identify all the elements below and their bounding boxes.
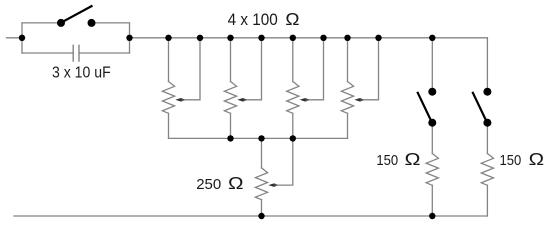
junction 250-ohm pot top [258,135,264,141]
junction node left input [19,35,25,41]
junction pot2 top [227,35,233,41]
wire pot2 wiper lead [243,38,262,100]
wire 250-ohm pot top lead [261,138,263,168]
wire switch branch B middle lead [486,123,488,154]
wire pot4 wiper lead [360,38,379,100]
wire left input stub [7,37,23,39]
wire bottom bus [14,215,487,217]
svg-text:3 x 10 uF: 3 x 10 uF [52,64,111,82]
svg-text:150: 150 [376,151,398,168]
wire pot3 wiper lead [305,38,323,100]
switch S2 bottom contact [428,119,436,127]
capacitor C (3 x 10 uF) plates [73,45,79,61]
junction pot3 wiper top [320,35,326,41]
resistor R6 (150 ohm) zigzag [426,154,438,186]
svg-text:150: 150 [500,151,522,168]
junction pot4 wiper top [375,35,381,41]
wire parallel-block right vertical [129,23,131,53]
switch S2 lever [417,92,430,120]
potentiometer R3 (100 ohm) zigzag [287,82,299,114]
wire top bus [130,37,488,39]
switch S1 left contact [57,19,65,27]
pot1 wiper arrowhead [175,98,181,102]
250-ohm pot wiper arrowhead [268,183,274,187]
svg-text:Ω: Ω [285,9,299,29]
potentiometer R1 (100 ohm) zigzag [162,82,174,114]
wire switch branch A bottom lead [431,185,433,216]
switch S3 bottom contact [483,119,491,127]
wire pots bottom bus [169,137,348,139]
svg-text:4 x 100: 4 x 100 [228,10,278,29]
svg-text:Ω: Ω [228,173,244,193]
junction 250-ohm pot bottom [258,213,264,219]
svg-text:Ω: Ω [405,149,421,169]
switch S1 lever [61,6,93,23]
wire pot3 resistor top lead [292,38,294,82]
svg-text:Ω: Ω [529,149,544,169]
wire pot4 resistor bottom lead [347,113,349,138]
potentiometer R5 (250 ohm) zigzag [255,168,267,200]
wire pot4 resistor top lead [347,38,349,82]
wire switch branch A middle lead [431,123,433,154]
wire pot2 resistor top lead [230,38,232,82]
wire pot1 resistor bottom lead [168,113,170,138]
wire 250-ohm pot bottom lead [261,200,263,216]
pot3 wiper arrowhead [300,98,306,102]
wire 250-ohm pot wiper lead [274,138,293,185]
wire parallel-block top branch right segment [92,22,130,24]
potentiometer R4 (100 ohm) zigzag [341,82,353,114]
wire pot1 wiper lead [181,38,200,100]
wire pot1 resistor top lead [168,38,170,82]
wire parallel-block top branch left segment [22,22,61,24]
svg-text:250: 250 [196,176,221,193]
wire pot2 resistor bottom lead [230,113,232,138]
junction pot1 top [165,35,171,41]
switch S1 right contact [88,19,96,27]
wire parallel-block bottom branch right segment [79,52,130,54]
wire switch branch B top lead [486,38,488,92]
junction pot4 top [344,35,350,41]
junction branch A top [429,35,435,41]
wire parallel-block bottom branch left segment [22,52,73,54]
switch S2 top contact [428,88,436,96]
switch S3 lever [472,92,485,120]
junction pot3 top [290,35,296,41]
wire pot3 resistor bottom lead [292,113,294,138]
junction pot1 wiper top [197,35,203,41]
junction node right of parallel block [126,35,132,41]
resistor R7 (150 ohm) zigzag [481,154,493,186]
wire switch branch B bottom lead [486,185,488,216]
pot2 wiper arrowhead [237,98,243,102]
wire switch branch A top lead [431,38,433,92]
pot4 wiper arrowhead [354,98,360,102]
junction pot3 bottom [290,135,296,141]
potentiometer R2 (100 ohm) zigzag [224,82,236,114]
junction branch A bottom [429,213,435,219]
junction pot2 bottom [227,135,233,141]
junction pot2 wiper top [258,35,264,41]
switch S3 top contact [483,88,491,96]
wire parallel-block left vertical [21,23,23,53]
